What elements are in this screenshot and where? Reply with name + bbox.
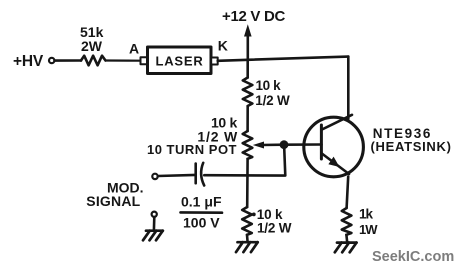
ground under R3 [236, 242, 258, 252]
resistor R2 10k 1/2W [243, 78, 253, 107]
terminal +HV [49, 58, 54, 63]
wire [246, 106, 249, 131]
resistor R1 51k 2W [81, 56, 106, 66]
fraction line [181, 211, 223, 214]
pot wiper arrow [253, 142, 264, 149]
svg-text:10 k: 10 k [256, 78, 282, 93]
wire [246, 235, 249, 242]
resistor R4 1k 1W [342, 208, 352, 235]
wire [158, 175, 196, 176]
wire dot to base [284, 143, 322, 146]
svg-text:K: K [218, 38, 228, 54]
emitter internal line [322, 154, 349, 174]
collector wire [347, 57, 350, 119]
potentiometer R5 10k 10 turn [243, 131, 253, 159]
svg-text:1k: 1k [359, 207, 374, 222]
svg-text:SIGNAL: SIGNAL [86, 193, 140, 209]
svg-text:100 V: 100 V [183, 214, 220, 230]
capacitor C1 0.1uF [194, 164, 197, 184]
emitter arrow [328, 157, 339, 167]
svg-text:1/2 W: 1/2 W [255, 93, 290, 108]
svg-text:SeekIC.com: SeekIC.com [372, 249, 454, 265]
resistor R3 10k 1/2W lower [242, 207, 252, 235]
svg-text:2W: 2W [81, 38, 103, 54]
svg-text:1/2 W: 1/2 W [257, 221, 292, 236]
svg-text:LASER: LASER [155, 53, 203, 68]
bullet [252, 213, 256, 217]
wire [106, 59, 141, 61]
terminal MOD bottom [152, 212, 157, 217]
collector internal line [322, 115, 352, 130]
svg-text:0.1 μF: 0.1 μF [181, 193, 222, 209]
ground MOD [143, 231, 163, 241]
wire dot down and left to capacitor [204, 148, 285, 176]
laser box [148, 47, 212, 74]
ground under R4 [335, 243, 357, 253]
svg-text:+12 V DC: +12 V DC [222, 8, 286, 25]
base bar [320, 125, 323, 159]
svg-text:+HV: +HV [13, 53, 44, 70]
terminal MOD top [152, 174, 157, 179]
emitter wire [347, 177, 349, 209]
svg-text:(HEATSINK): (HEATSINK) [371, 139, 452, 154]
wire K to collector corner [218, 57, 349, 61]
wire [55, 59, 81, 62]
transistor Q1 NTE936 [304, 117, 364, 177]
wire pot bottom through crossing to R3 [246, 159, 249, 207]
laser anode terminal [141, 57, 148, 64]
wire [153, 217, 156, 231]
wire [246, 60, 249, 78]
svg-text:10 TURN POT: 10 TURN POT [147, 142, 237, 157]
svg-text:A: A [129, 41, 139, 57]
svg-text:1W: 1W [359, 222, 378, 237]
junction dot base node [280, 140, 289, 149]
laser cathode terminal [211, 58, 218, 65]
supply arrow [247, 33, 250, 60]
wire [345, 235, 348, 243]
